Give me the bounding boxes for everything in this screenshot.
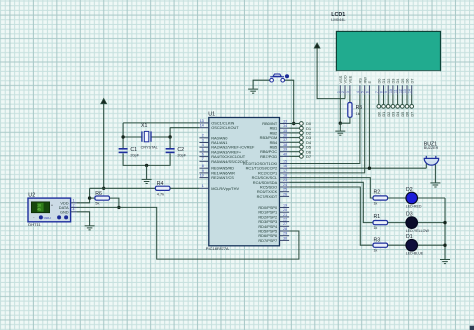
svg-text:R4: R4	[157, 181, 164, 187]
wire R1 to D3	[388, 222, 406, 224]
svg-text:1: 1	[202, 184, 204, 188]
svg-text:1k: 1k	[374, 201, 378, 205]
svg-text:23: 23	[283, 178, 287, 182]
wire D2 to cathode rail	[418, 197, 446, 199]
svg-text:8: 8	[380, 91, 384, 93]
svg-text:45: 45	[37, 208, 41, 212]
push button	[270, 74, 289, 82]
svg-text:10: 10	[389, 89, 393, 93]
svg-text:VDD: VDD	[343, 75, 348, 83]
LCD pin stubs	[340, 85, 411, 94]
wire +5V vertical to rail	[103, 104, 105, 189]
svg-text:5k: 5k	[95, 201, 99, 206]
svg-text:RC1/T1OSI/CCP2: RC1/T1OSI/CCP2	[246, 166, 278, 171]
wire LCD VDD stub join	[344, 95, 346, 99]
value label LED-RED	[406, 204, 422, 208]
svg-text:5: 5	[202, 148, 204, 152]
svg-text:RD2/PSP2: RD2/PSP2	[258, 214, 277, 219]
U2 pin numbers	[72, 199, 74, 212]
svg-text:D3: D3	[306, 135, 312, 140]
svg-text:RB2: RB2	[270, 130, 278, 135]
value 1k (R3)	[374, 249, 378, 253]
svg-text:D5: D5	[306, 145, 312, 150]
label BUZ1	[424, 141, 437, 147]
svg-text:RB0/INT: RB0/INT	[262, 121, 278, 126]
svg-text:RS: RS	[358, 78, 363, 84]
resistor R3	[373, 243, 388, 247]
wire crystal right	[151, 136, 170, 138]
terminal labels D0-D7 (at U1)	[306, 121, 312, 159]
svg-text:RA0/AN0: RA0/AN0	[211, 135, 228, 140]
svg-text:D5: D5	[400, 79, 405, 84]
crystal X1	[142, 131, 151, 141]
label R2	[374, 190, 381, 196]
svg-text:RD7/PSP7: RD7/PSP7	[258, 238, 277, 243]
resistor R1	[373, 221, 388, 225]
wire button left to ground	[253, 80, 270, 89]
svg-text:10: 10	[200, 174, 204, 178]
svg-text:18: 18	[37, 204, 41, 208]
label U2	[28, 193, 35, 199]
wire DHT11 DATA to U1 RD5 (under chip)	[77, 207, 299, 259]
svg-text:RD4/PSP4: RD4/PSP4	[258, 224, 278, 229]
svg-text:OSC1/CLKIN: OSC1/CLKIN	[211, 120, 234, 125]
value 20pF (C2)	[177, 154, 186, 158]
svg-text:D2: D2	[406, 187, 413, 193]
svg-text:20pF: 20pF	[177, 154, 186, 158]
svg-text:RD6/PSP6: RD6/PSP6	[258, 233, 277, 238]
svg-text:2: 2	[202, 134, 204, 138]
buzzer BUZ1	[424, 156, 439, 165]
label R5	[356, 105, 363, 111]
svg-text:R6: R6	[95, 191, 102, 197]
label C2	[177, 147, 184, 153]
wire R4 to MCLR pin1	[170, 187, 199, 189]
svg-text:RE2/AN7/CS: RE2/AN7/CS	[211, 175, 234, 180]
svg-text:2: 2	[72, 203, 74, 207]
svg-text:R2: R2	[374, 190, 381, 196]
svg-text:RA3/AN3/VREF+: RA3/AN3/VREF+	[211, 149, 242, 154]
svg-text:D3: D3	[392, 112, 396, 117]
U2 pin stubs	[71, 203, 77, 212]
node VDD/R6 junction	[88, 196, 91, 199]
svg-text:RE1/AN6/WR: RE1/AN6/WR	[211, 170, 235, 175]
svg-text:4: 4	[202, 143, 204, 147]
svg-text:RB5: RB5	[270, 145, 278, 150]
svg-text:RC7/RX/DT: RC7/RX/DT	[257, 194, 278, 199]
svg-text:D6: D6	[405, 79, 410, 84]
wire D1 to cathode rail	[418, 244, 446, 246]
svg-text:RA1/AN1: RA1/AN1	[211, 140, 227, 145]
wire to oscillator ground	[146, 165, 148, 179]
svg-text:RC2/CCP1: RC2/CCP1	[258, 170, 277, 175]
svg-text:U2: U2	[28, 193, 35, 199]
ground (button)	[248, 89, 258, 93]
ground (LCD)	[335, 131, 345, 135]
svg-text:RB1: RB1	[270, 126, 278, 131]
svg-text:6: 6	[365, 91, 369, 93]
svg-text:RD3/PSP3: RD3/PSP3	[258, 219, 277, 224]
svg-text:6: 6	[202, 153, 204, 157]
wire OSC2	[170, 128, 199, 137]
svg-text:14: 14	[408, 89, 412, 93]
wire RC1 to buzzer	[289, 167, 426, 169]
svg-text:-: -	[33, 216, 34, 220]
svg-text:1k: 1k	[356, 111, 360, 116]
svg-text:4.7k: 4.7k	[157, 191, 164, 196]
ground (buzzer)	[430, 183, 440, 187]
value 20pF (C1)	[130, 154, 139, 158]
capacitor C1	[119, 149, 128, 153]
resistor R5	[348, 103, 352, 118]
U1 right pin stubs	[280, 124, 290, 241]
svg-text:38: 38	[283, 143, 287, 147]
svg-text:R1: R1	[374, 214, 381, 220]
value DHT11	[28, 222, 41, 227]
svg-text:RE0/AN5/RD: RE0/AN5/RD	[211, 166, 234, 171]
svg-text:21: 21	[283, 213, 287, 217]
wire crystal left	[123, 136, 142, 138]
svg-text:1: 1	[72, 199, 74, 203]
svg-text:C1: C1	[130, 147, 137, 153]
svg-text:D4: D4	[396, 112, 400, 117]
svg-text:RC6/TX/CK: RC6/TX/CK	[257, 189, 278, 194]
svg-text:14: 14	[200, 124, 204, 128]
svg-text:RC0/T1OSO/T1CKI: RC0/T1OSO/T1CKI	[243, 161, 277, 166]
U1 left pin numbers	[200, 119, 204, 188]
svg-text:7: 7	[375, 91, 379, 93]
svg-text:RB7/PGD: RB7/PGD	[260, 154, 277, 159]
value CRYSTAL	[141, 145, 158, 149]
LED D3 (LED-YELLOW)	[406, 217, 418, 229]
capacitor C2	[166, 149, 175, 153]
svg-text:D2: D2	[306, 131, 312, 136]
value BUZZER	[424, 146, 439, 150]
value PIC16F877A	[206, 246, 229, 251]
node R6/DATA junction	[117, 206, 120, 209]
svg-text:1k: 1k	[374, 249, 378, 253]
svg-text:29: 29	[283, 232, 287, 236]
svg-text:35: 35	[283, 129, 287, 133]
svg-text:37: 37	[283, 138, 287, 142]
svg-text:PIC16F877A: PIC16F877A	[206, 246, 229, 251]
wire LCD RS to RC0	[289, 95, 360, 164]
svg-text:RC3/SCK/SCL: RC3/SCK/SCL	[252, 175, 278, 180]
svg-text:D2: D2	[386, 79, 391, 84]
svg-text:9: 9	[384, 91, 388, 93]
label U1	[208, 112, 215, 118]
wire LCD E down	[368, 95, 370, 169]
wire DHT11 GND down	[77, 212, 90, 226]
value 1k (R2)	[374, 201, 378, 205]
wire OSC1 top	[123, 122, 199, 124]
svg-text:D7: D7	[410, 112, 414, 117]
U1 right pin numbers	[283, 119, 287, 240]
label C1	[130, 147, 137, 153]
wire LCD RW to RC2	[289, 95, 365, 173]
svg-text:RB3/PGM: RB3/PGM	[260, 135, 278, 140]
terminals D0-D7 (at U1)	[300, 122, 304, 159]
svg-text:LED-RED: LED-RED	[406, 204, 422, 208]
svg-text:RD1/PSP1: RD1/PSP1	[258, 210, 277, 215]
value 1k (R1)	[374, 226, 378, 230]
svg-text:RC5/SDO: RC5/SDO	[260, 185, 277, 190]
svg-text:33: 33	[283, 119, 287, 123]
wire VEE to R5	[349, 95, 351, 103]
svg-text:16: 16	[283, 164, 287, 168]
node VSS/R5 junction	[339, 122, 342, 125]
node E/RC1/buzzer	[368, 167, 371, 170]
LCD pin names (rotated)	[338, 75, 414, 83]
node C1/X1	[121, 135, 124, 138]
node button/RB0	[292, 122, 295, 125]
svg-text:%RH: %RH	[44, 216, 51, 220]
wire C1 top lead	[122, 123, 124, 148]
svg-text:26: 26	[283, 192, 287, 196]
value label LED-BLUE	[406, 252, 424, 256]
svg-text:17: 17	[283, 169, 287, 173]
svg-text:40: 40	[283, 152, 287, 156]
svg-text:3: 3	[202, 138, 204, 142]
wire C2 top lead	[169, 137, 171, 148]
label R6	[95, 191, 102, 197]
microcontroller U1 PIC16F877A body	[209, 118, 280, 246]
svg-text:VEE: VEE	[348, 75, 353, 83]
svg-text:D4: D4	[306, 140, 312, 145]
LCD value LM044L	[331, 17, 346, 22]
svg-text:D3: D3	[406, 211, 413, 217]
U1 right pin names	[243, 121, 278, 243]
svg-text:R3: R3	[374, 238, 381, 244]
svg-text:RB4: RB4	[270, 140, 278, 145]
label X1	[141, 123, 147, 129]
node rail/D1	[443, 244, 446, 247]
svg-text:CRYSTAL: CRYSTAL	[141, 145, 158, 149]
svg-text:D1: D1	[306, 126, 312, 131]
svg-text:12: 12	[398, 89, 402, 93]
node rail/D3	[443, 221, 446, 224]
svg-text:39: 39	[283, 148, 287, 152]
svg-text:11: 11	[394, 89, 398, 93]
svg-text:5: 5	[361, 91, 365, 93]
svg-text:9: 9	[202, 169, 204, 173]
svg-text:1k: 1k	[374, 226, 378, 230]
U2 pin names	[59, 200, 69, 214]
svg-text:X1: X1	[141, 123, 147, 129]
wire C1/C2 bottom	[123, 153, 170, 165]
svg-text:LM044L: LM044L	[331, 17, 346, 22]
wire D3 to cathode rail	[418, 222, 446, 224]
svg-text:D0: D0	[377, 112, 381, 117]
LED D1 (LED-BLUE)	[406, 239, 418, 251]
svg-text:MCLR/Vpp/THV: MCLR/Vpp/THV	[211, 186, 239, 191]
value 4.7k	[157, 191, 164, 196]
+5V power terminal (left rail)	[101, 99, 107, 104]
node +5V rail junction	[102, 187, 105, 190]
svg-text:VSS: VSS	[338, 75, 343, 83]
svg-text:DHT11: DHT11	[28, 222, 41, 227]
svg-text:LED-YELLOW: LED-YELLOW	[406, 229, 430, 233]
svg-text:LED-BLUE: LED-BLUE	[406, 252, 424, 256]
svg-text:R5: R5	[356, 105, 363, 111]
wire buzzer left pin	[425, 159, 427, 168]
sensor U2 DHT11 body	[28, 198, 71, 222]
svg-text:22: 22	[283, 218, 287, 222]
wire buzzer right pin to ground	[434, 159, 436, 183]
svg-text:E: E	[367, 81, 372, 84]
label D1	[406, 234, 413, 240]
LED D2 (LED-RED)	[406, 192, 418, 204]
U1 left pin names	[211, 120, 255, 190]
svg-text:20pF: 20pF	[130, 154, 139, 158]
label D2	[406, 187, 413, 193]
svg-text:30: 30	[283, 236, 287, 240]
svg-text:8: 8	[202, 164, 204, 168]
value label LED-YELLOW	[406, 229, 430, 233]
svg-text:3: 3	[346, 91, 350, 93]
svg-text:D6: D6	[306, 149, 312, 154]
wire +5V to DHT11 VDD	[77, 188, 90, 203]
wires LCD D0-D7 to terminals	[379, 95, 412, 105]
svg-text:36: 36	[283, 134, 287, 138]
svg-text:D1: D1	[406, 234, 413, 240]
decorative sheet corner	[470, 326, 474, 330]
svg-text:D1: D1	[382, 112, 386, 117]
svg-text:D0: D0	[376, 78, 381, 84]
svg-text:D1: D1	[381, 79, 386, 84]
ground (oscillator)	[142, 179, 152, 183]
wire U1 to R3	[289, 187, 373, 245]
label R1	[374, 214, 381, 220]
svg-text:GND: GND	[60, 209, 69, 214]
wire R6 right to DATA net	[110, 198, 119, 207]
svg-text:D6: D6	[406, 112, 410, 117]
svg-text:RA4/T0CKI/C1OUT: RA4/T0CKI/C1OUT	[211, 154, 246, 159]
svg-text:D7: D7	[306, 154, 312, 159]
U1 left pin stubs	[199, 123, 208, 188]
svg-text:7: 7	[202, 157, 204, 161]
wire to R6 left	[90, 197, 95, 199]
wire button right to RB0	[285, 80, 294, 123]
svg-text:20: 20	[283, 208, 287, 212]
terminals D0-D7 (at LCD)	[377, 105, 414, 109]
svg-text:13: 13	[403, 89, 407, 93]
LCD pin numbers (rotated)	[336, 89, 411, 93]
LCD LCD1 label	[331, 12, 345, 18]
svg-text:D4: D4	[395, 78, 400, 84]
wire LED cathode rail	[444, 198, 446, 259]
wire +5V to LCD VDD	[317, 48, 345, 99]
svg-text:BUZZER: BUZZER	[424, 146, 439, 150]
wire R3 to D1	[388, 244, 406, 246]
svg-text:2: 2	[341, 91, 345, 93]
svg-text:RC4/SDI/SDA: RC4/SDI/SDA	[253, 180, 278, 185]
svg-text:D7: D7	[409, 79, 414, 84]
svg-text:RW: RW	[362, 77, 367, 84]
wire U1 to R2	[289, 178, 373, 198]
value 5k	[95, 201, 99, 206]
value 1k (R5)	[356, 111, 360, 116]
svg-text:D3: D3	[391, 79, 396, 84]
svg-text:4: 4	[72, 208, 74, 212]
terminal labels D0-D7 (at LCD, rotated)	[377, 112, 414, 117]
resistor R2	[373, 196, 388, 200]
svg-text:OSC2/CLKOUT: OSC2/CLKOUT	[211, 125, 239, 130]
svg-text:25: 25	[283, 188, 287, 192]
svg-text:RA2/AN2/VREF-/CVREF: RA2/AN2/VREF-/CVREF	[211, 145, 255, 150]
wire R5 bottom to VSS node	[340, 117, 350, 123]
svg-text:+: +	[51, 204, 53, 208]
node oscillator ground junction	[145, 164, 148, 167]
node C2/X1	[168, 135, 171, 138]
label R4	[157, 181, 164, 187]
svg-text:D5: D5	[401, 112, 405, 117]
svg-text:28: 28	[283, 227, 287, 231]
label R3	[374, 238, 381, 244]
+5V power terminal (LCD)	[314, 43, 320, 48]
svg-text:C2: C2	[177, 147, 184, 153]
ground (LEDs)	[440, 260, 450, 264]
resistor R4	[155, 186, 170, 190]
svg-text:19: 19	[283, 203, 287, 207]
svg-text:1: 1	[336, 91, 340, 93]
svg-text:24: 24	[283, 183, 287, 187]
ground (DHT11)	[85, 226, 95, 230]
svg-text:RD5/PSP5: RD5/PSP5	[258, 229, 277, 234]
wire U1 to R1	[289, 182, 373, 222]
svg-text:18: 18	[283, 174, 287, 178]
wires RB0-RB7 to terminals	[289, 124, 299, 157]
svg-text:15: 15	[283, 159, 287, 163]
resistor R6	[95, 196, 110, 200]
label D3	[406, 211, 413, 217]
svg-text:U1: U1	[208, 112, 215, 118]
svg-text:13: 13	[200, 119, 204, 123]
wire +5V rail to R4	[90, 187, 156, 189]
svg-text:34: 34	[283, 124, 287, 128]
wire LCD VSS down	[339, 95, 341, 124]
svg-text:D2: D2	[387, 112, 391, 117]
wire R2 to D2	[388, 197, 406, 199]
svg-text:D0: D0	[306, 121, 312, 126]
LCD LM044L screen	[336, 31, 440, 84]
svg-text:4: 4	[356, 91, 360, 93]
svg-text:RB6/PGC: RB6/PGC	[260, 149, 277, 154]
svg-text:27: 27	[283, 222, 287, 226]
svg-text:RD0/PSP0: RD0/PSP0	[258, 205, 278, 210]
wire VSS to ground	[339, 123, 341, 131]
